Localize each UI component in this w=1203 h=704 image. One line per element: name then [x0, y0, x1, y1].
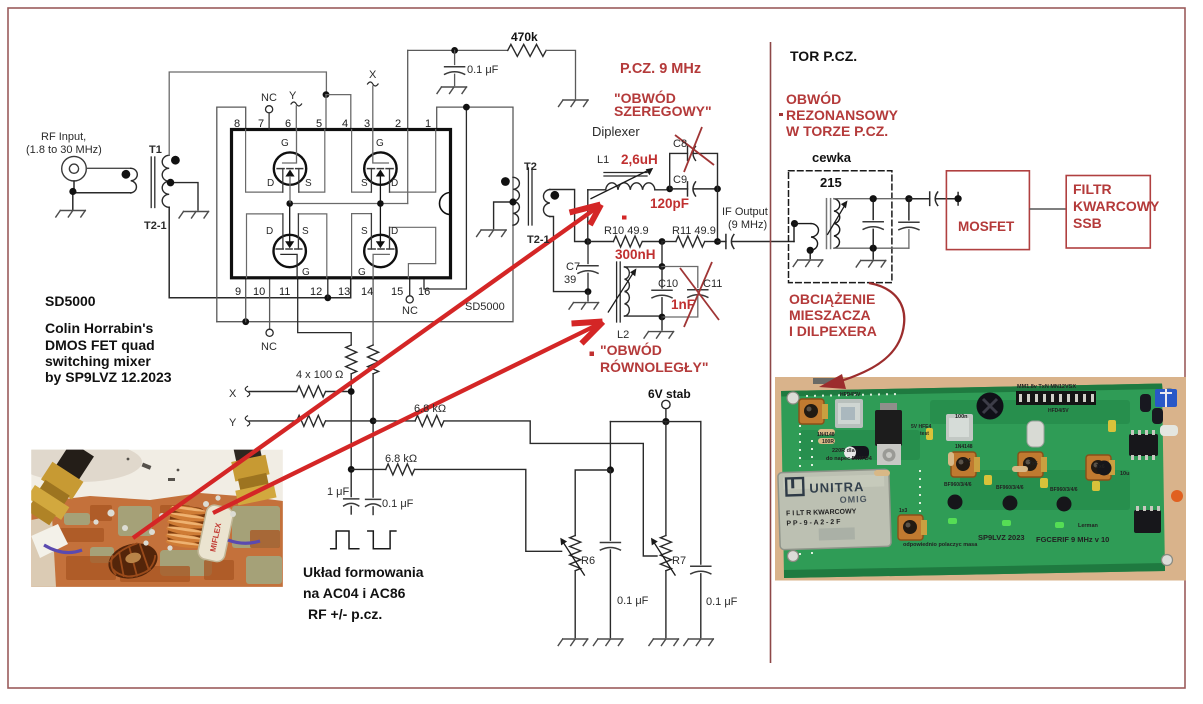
capacitor 0.1uF at R6: [609, 470, 611, 540]
interior bus BL left: [247, 214, 283, 278]
white via dot rows: [800, 394, 920, 560]
wire coil secondary top rail: [834, 198, 909, 200]
green LEDs: [948, 518, 1064, 528]
IC notch: [440, 193, 451, 215]
RF input coax connector J1: [62, 156, 87, 181]
svg-text:C9: C9: [673, 174, 687, 186]
node dot C9 right: [714, 186, 721, 193]
100 ohm resistor R2 vertical: [368, 345, 379, 374]
svg-text:4: 4: [342, 118, 348, 130]
svg-text:100R: 100R: [822, 439, 834, 445]
svg-text:C10: C10: [658, 278, 678, 290]
svg-text:3: 3: [364, 118, 370, 130]
svg-text:do napec 5WiFD4: do napec 5WiFD4: [826, 456, 873, 462]
resistor R11 49.9: [662, 241, 676, 243]
svg-text:8: 8: [234, 118, 240, 130]
resistor 470k: [508, 44, 546, 56]
svg-text:16: 16: [418, 286, 430, 298]
node dot substrate right pair: [377, 200, 384, 207]
node dot pin16/top: [463, 104, 470, 111]
svg-text:cewka: cewka: [812, 150, 852, 165]
svg-text:6.8 kΩ: 6.8 kΩ: [414, 403, 446, 415]
svg-text:Tx6: Tx6: [1096, 464, 1105, 470]
node dot R10/R11: [659, 238, 666, 245]
trimmer resistor R7: [660, 536, 671, 571]
svg-text:HFD4/5V: HFD4/5V: [1048, 408, 1069, 414]
capacitor C8 branch (crossed out): [670, 146, 718, 189]
svg-text:OBCIĄŻENIE: OBCIĄŻENIE: [789, 291, 875, 307]
Y drive brace: [245, 416, 250, 426]
svg-text:D: D: [391, 178, 398, 189]
blue trimmer pot: [1155, 389, 1177, 407]
wire T2 secondary bottom to C7 rail: [550, 217, 588, 292]
red arrow A photo to series circuit: [133, 205, 601, 539]
svg-text:1N4148: 1N4148: [955, 444, 973, 450]
svg-text:X: X: [369, 69, 377, 81]
capacitor 0.1uF at R7: [700, 422, 702, 564]
T2 phase dot primary: [501, 177, 510, 186]
IC SD5000 package body: [232, 130, 451, 278]
svg-text:HFD4'5V: HFD4'5V: [840, 392, 861, 398]
black round transistors BF960: [948, 461, 1112, 512]
orange cap right edge: [1171, 490, 1183, 502]
substrate rail inside IC: [290, 203, 408, 205]
L1 trimmer arrow: [591, 168, 653, 199]
node dot diplexer input: [584, 238, 591, 245]
svg-text:0.1 μF: 0.1 μF: [706, 596, 738, 608]
L2 winding: [625, 267, 630, 316]
dark silkscreen texts: [817, 384, 1105, 514]
node dot above pin5: [323, 91, 330, 98]
gray component pointed by arrow: [813, 378, 835, 384]
wire pin11 to 100ohm resistor R1: [298, 278, 352, 345]
svg-text:R10 49.9: R10 49.9: [604, 225, 649, 237]
wire node to pin 5: [325, 95, 327, 130]
svg-text:odpowiednio polaczyc masa: odpowiednio polaczyc masa: [903, 542, 978, 548]
wire pin14 down to resistor R2: [372, 278, 374, 345]
wire pin16 loop up to top node: [424, 107, 466, 289]
shadow on paper top-left: [18, 442, 142, 482]
ground coil primary: [809, 250, 811, 258]
svg-text:6: 6: [285, 118, 291, 130]
pale board edge left: [31, 516, 56, 587]
svg-text:SD5000: SD5000: [465, 301, 505, 313]
T1 secondary winding: [162, 155, 169, 207]
svg-text:5: 5: [316, 118, 322, 130]
connection MOSFET to FILTR: [1029, 208, 1066, 210]
ground tank: [872, 248, 874, 259]
svg-text:NC: NC: [402, 305, 418, 317]
small yellow caps: [926, 420, 1116, 491]
svg-text:R6: R6: [581, 555, 595, 567]
wire T2 secondary top to diplexer: [550, 190, 588, 242]
svg-text:1: 1: [425, 118, 431, 130]
transformer T1 primary winding: [131, 168, 138, 193]
svg-text:9: 9: [235, 286, 241, 298]
node dot pin12 on rail: [324, 294, 331, 301]
wire NC pin7 stub: [268, 113, 270, 130]
wire pin9 stub: [245, 278, 247, 322]
svg-text:RF Input,: RF Input,: [41, 131, 86, 143]
svg-text:(1.8 to 30 MHz): (1.8 to 30 MHz): [26, 144, 102, 156]
X input squiggle top: [368, 82, 379, 86]
svg-text:0.1 μF: 0.1 μF: [467, 64, 499, 76]
node dot lower 6.8k left: [348, 466, 355, 473]
resistor 6.8k lower: [351, 464, 561, 551]
wire pin15 to NC: [409, 278, 411, 296]
wire X to pin3: [372, 86, 374, 130]
T1 secondary center tap: [169, 183, 198, 210]
capacitor C11 branch (crossed out): [662, 267, 698, 318]
Y input squiggle top: [291, 102, 302, 106]
wire node to pin 4: [326, 95, 351, 130]
svg-text:BF960/3/4/6: BF960/3/4/6: [996, 485, 1024, 491]
svg-text:G: G: [376, 138, 384, 149]
purple wire right: [228, 540, 260, 543]
transistor Q2 top-right: [364, 130, 396, 204]
node dot coil primary bottom: [807, 247, 814, 254]
interior bus BR right: [390, 227, 436, 277]
trimmer resistor R6: [570, 536, 581, 571]
svg-text:NC: NC: [261, 92, 277, 104]
svg-text:G: G: [281, 138, 289, 149]
wire T1 secondary bottom down to pin13 rail: [169, 207, 351, 297]
white plastic corner: [31, 524, 68, 558]
red box FILTR KWARCOWY SSB: [1066, 176, 1150, 249]
svg-text:SZEREGOWY": SZEREGOWY": [614, 103, 712, 119]
tank capacitor inside box: [872, 199, 874, 220]
svg-text:5V HFE4: 5V HFE4: [911, 424, 932, 430]
svg-text:0.1 μF: 0.1 μF: [617, 595, 649, 607]
capacitor C9: [670, 182, 718, 196]
solder blobs: [93, 495, 236, 550]
node dot L2 top: [659, 263, 666, 270]
wire R6 bottom to ground: [574, 571, 576, 638]
svg-text:UNITRA: UNITRA: [809, 479, 865, 496]
T2 core: [528, 168, 532, 225]
L2 bottom wire: [625, 315, 663, 317]
node dot 6V: [662, 418, 669, 425]
wire left outer loop pin8: [217, 107, 246, 322]
series capacitor IF out: [718, 235, 795, 249]
svg-text:1 μF: 1 μF: [327, 486, 350, 498]
svg-text:FGCERIF 9 MHz v 10: FGCERIF 9 MHz v 10: [1036, 535, 1109, 544]
capacitor C10 1nF: [661, 267, 663, 289]
svg-text:Y: Y: [289, 90, 297, 102]
NC circle pin15: [406, 296, 413, 303]
svg-text:Lerman: Lerman: [1078, 523, 1099, 529]
node dot coil in: [791, 220, 798, 227]
darker green regions: [800, 400, 1130, 510]
red arrow B photo to parallel circuit: [213, 322, 603, 514]
svg-text:switching mixer: switching mixer: [45, 353, 151, 369]
darker copper traces: [58, 505, 280, 582]
svg-text:T2: T2: [524, 161, 537, 173]
dark red curvy arrow to PCB photo: [819, 283, 904, 389]
svg-text:4 x 100 Ω: 4 x 100 Ω: [296, 369, 343, 381]
svg-text:OMIG: OMIG: [840, 494, 868, 505]
svg-text:1N4148: 1N4148: [817, 432, 835, 438]
resistor R10 49.9: [588, 241, 614, 243]
wire 470k to ground drop: [546, 50, 575, 98]
node dot pin9 on bottom rail: [242, 318, 249, 325]
wire bias node top rail: [408, 49, 508, 51]
svg-text:G: G: [302, 267, 310, 278]
L2 top wire: [625, 266, 663, 268]
MIFLEX capacitor: [197, 504, 235, 563]
svg-text:P.CZ. 9 MHz: P.CZ. 9 MHz: [620, 61, 701, 77]
6V stab terminal: [662, 400, 670, 408]
node dot R11 right: [714, 238, 721, 245]
svg-text:R7: R7: [672, 555, 686, 567]
svg-text:T1: T1: [149, 144, 162, 156]
wire Y to pin6: [295, 106, 297, 130]
wire R2 down through Y node to 0.1uF cap: [372, 374, 374, 497]
silver relay 2: [946, 414, 973, 441]
svg-text:L2: L2: [617, 329, 629, 341]
UNITRA metal can: [778, 469, 891, 549]
svg-text:220R dla r: 220R dla r: [832, 448, 859, 454]
svg-text:D: D: [267, 178, 274, 189]
copper air coil: [164, 503, 208, 549]
node dot bias/cap: [451, 47, 458, 54]
svg-text:C7: C7: [566, 261, 580, 273]
svg-text:300nH: 300nH: [615, 247, 656, 262]
second tank capacitor outside box: [905, 195, 912, 202]
svg-text:RÓWNOLEGŁY": RÓWNOLEGŁY": [600, 358, 709, 375]
svg-text:IF Output: IF Output: [722, 206, 768, 218]
red square mark near 120pF: [622, 216, 627, 220]
electrolytic cap horizontal: [847, 446, 869, 459]
svg-text:Układ formowania: Układ formowania: [303, 564, 424, 580]
svg-text:SSB: SSB: [1073, 215, 1102, 231]
node dot connector/return: [69, 188, 76, 195]
svg-text:Diplexer: Diplexer: [592, 124, 640, 139]
interior bus TR right: [390, 130, 436, 193]
wire 6V rail: [610, 421, 700, 423]
svg-text:T2-1: T2-1: [144, 220, 167, 232]
svg-text:BF960/3/4/6: BF960/3/4/6: [944, 482, 972, 488]
ground T1 center tap: [179, 212, 209, 219]
svg-text:10u: 10u: [1120, 471, 1129, 477]
svg-text:S: S: [361, 226, 368, 237]
svg-text:15: 15: [391, 286, 403, 298]
transistor Q3 bottom-left: [274, 204, 306, 278]
red square mark near OBWOD ROWNOLEGLY: [590, 352, 595, 357]
wire R1 down through X node to 1uF cap: [350, 374, 352, 497]
svg-text:Colin Horrabin's: Colin Horrabin's: [45, 320, 154, 336]
tan resistors: [818, 429, 1028, 476]
capacitor C7 39p: [587, 242, 589, 264]
svg-text:MOSFET: MOSFET: [958, 219, 1015, 234]
transformer T2 primary winding on loop rail: [513, 177, 519, 225]
svg-text:S: S: [361, 178, 368, 189]
inductor L1 variable: [587, 190, 589, 242]
svg-text:G: G: [358, 267, 366, 278]
svg-text:"OBWÓD: "OBWÓD: [600, 341, 662, 358]
node dot MOSFET in: [955, 195, 962, 202]
svg-text:MIESZACZA: MIESZACZA: [789, 307, 871, 323]
wire connector body down: [73, 181, 75, 193]
big electrolytic top view: [977, 393, 1004, 420]
node dot substrate left pair: [286, 200, 293, 207]
series capacitor to MOSFET: [909, 192, 958, 205]
corner screws: [787, 389, 1175, 566]
Y drive wire and resistor: [249, 415, 373, 426]
interior bus TL right: [299, 130, 325, 193]
wire pin12 stub: [327, 278, 329, 298]
svg-text:6.8 kΩ: 6.8 kΩ: [385, 453, 417, 465]
svg-text:SD5000: SD5000: [45, 293, 96, 309]
ground under RF connector: [56, 211, 86, 218]
wire 6V to R7 top: [665, 422, 667, 536]
svg-text:S: S: [305, 178, 312, 189]
svg-text:11: 11: [279, 286, 290, 298]
svg-text:D: D: [266, 226, 273, 237]
node dots tank cap: [870, 195, 877, 202]
node dot L2 bottom: [659, 314, 666, 321]
interior bus BR left: [352, 214, 372, 278]
T2 primary center tap to ground: [494, 202, 513, 229]
ground bias cap: [437, 87, 467, 94]
svg-text:FILTR: FILTR: [1073, 181, 1112, 197]
DIP-8 IC 2: [1134, 510, 1161, 533]
svg-text:6V stab: 6V stab: [648, 387, 691, 401]
svg-text:Tx4: Tx4: [962, 458, 971, 464]
right photo: green PCB FGCERIF: [775, 377, 1186, 581]
square wave symbol negative: [368, 531, 396, 549]
copper board: [31, 493, 283, 587]
pale green trace patches: [64, 506, 282, 584]
svg-text:7: 7: [258, 118, 264, 130]
yellow silkscreen texts: [826, 414, 1129, 548]
wire R7 bottom to ground: [665, 571, 667, 638]
interior bus TL left: [246, 130, 283, 193]
wire RF hot to T1 primary: [86, 167, 130, 169]
svg-text:REZONANSOWY: REZONANSOWY: [786, 107, 899, 123]
svg-text:120pF: 120pF: [650, 196, 689, 211]
svg-text:MM1.8v TxN MN12VSX: MM1.8v TxN MN12VSX: [1017, 384, 1076, 390]
wire C9 node down to R11: [717, 189, 719, 242]
left photo: prototype mixer on copper PCB: [18, 433, 283, 587]
wire L1 out to C9 node: [655, 189, 670, 191]
T2 phase dot secondary: [550, 191, 559, 200]
svg-text:215: 215: [820, 175, 842, 190]
X drive brace: [245, 387, 250, 397]
100 ohm resistor R1 vertical: [346, 345, 357, 374]
interior bus BL right: [298, 214, 326, 278]
T1 phase dot secondary: [171, 156, 180, 165]
wire coil secondary bottom rail: [834, 247, 909, 249]
red X cross over C8: [675, 127, 714, 172]
dashed box resonant circuit: [789, 171, 892, 283]
svg-text:12: 12: [310, 286, 322, 298]
red tick before REZONANSOWY: [779, 113, 783, 116]
orange trimmer capacitors: [799, 399, 1115, 540]
wire RF return bottom: [73, 193, 131, 210]
svg-text:I DILPEXERA: I DILPEXERA: [789, 323, 877, 339]
toroid inductor: [104, 538, 161, 584]
TO-220 transistor: [875, 403, 902, 465]
svg-text:Y: Y: [229, 417, 237, 429]
coil core: [827, 199, 831, 249]
T1 phase dot primary: [122, 170, 131, 179]
coil primary winding: [795, 223, 812, 225]
svg-text:test: test: [920, 431, 929, 437]
pin header: [1016, 391, 1096, 405]
red box MOSFET: [946, 171, 1029, 250]
ground C7: [587, 292, 589, 301]
wire bias vertical into pin2: [407, 50, 409, 129]
svg-text:SP9LVZ 2023: SP9LVZ 2023: [978, 533, 1025, 542]
capacitor 0.1uF bias: [454, 50, 456, 64]
svg-text:X: X: [229, 388, 237, 400]
L1 core bars: [604, 173, 647, 177]
svg-text:1x3: 1x3: [899, 508, 908, 514]
node dot C9 left: [666, 186, 673, 193]
svg-text:100n: 100n: [955, 414, 968, 420]
node dot C7 bottom: [585, 288, 592, 295]
svg-text:470k: 470k: [511, 30, 538, 44]
svg-text:DMOS FET quad: DMOS FET quad: [45, 337, 155, 353]
svg-text:NC: NC: [261, 341, 277, 353]
green board: [781, 384, 1165, 579]
red separator line TOR P.CZ.: [770, 42, 772, 663]
black cylinder caps top right: [1140, 394, 1151, 412]
crystal 9MHz: [1027, 421, 1044, 447]
svg-text:2,6uH: 2,6uH: [621, 152, 658, 167]
svg-text:(9 MHz): (9 MHz): [728, 219, 767, 231]
square wave symbol positive: [331, 531, 359, 549]
svg-text:Tx5: Tx5: [1029, 461, 1038, 467]
transistor Q1 top-left: [274, 130, 306, 204]
svg-text:RF +/- p.cz.: RF +/- p.cz.: [308, 606, 382, 622]
svg-text:BF960/3/4/6: BF960/3/4/6: [1050, 487, 1078, 493]
svg-text:na AC04 i AC86: na AC04 i AC86: [303, 585, 406, 601]
transistor Q4 bottom-right: [364, 204, 396, 278]
gold SMA connector right: [225, 433, 277, 506]
wire T1 secondary top up-over to pins 5/4: [169, 72, 326, 155]
svg-text:S: S: [302, 226, 309, 237]
svg-text:C8: C8: [673, 138, 687, 150]
svg-text:by SP9LVZ 12.2023: by SP9LVZ 12.2023: [45, 369, 172, 385]
ground T2 tap: [477, 230, 507, 237]
X drive wire and resistor: [249, 386, 351, 397]
svg-text:D: D: [391, 226, 398, 237]
svg-text:L1: L1: [597, 154, 609, 166]
node dot Y: [370, 418, 377, 425]
NC circle pin7: [266, 106, 273, 113]
svg-text:14: 14: [361, 286, 373, 298]
coil secondary winding: [834, 199, 840, 249]
svg-text:W TORZE P.CZ.: W TORZE P.CZ.: [786, 123, 888, 139]
svg-text:OBWÓD: OBWÓD: [786, 90, 841, 107]
capacitor 1uF: [344, 499, 359, 506]
white cylinder: [1160, 425, 1178, 436]
svg-text:TOR P.CZ.: TOR P.CZ.: [790, 48, 857, 64]
ground L2/C10: [661, 317, 663, 330]
wire bottom rail pins 9/1 loop: [217, 107, 513, 322]
svg-text:KWARCOWY: KWARCOWY: [1073, 198, 1160, 214]
gold SMA connector left: [21, 438, 100, 529]
ground right of 470k: [559, 100, 589, 107]
red X cross over C11: [680, 262, 719, 327]
L2 trimmer arrow: [608, 268, 636, 312]
wire node to R6 top: [575, 470, 610, 536]
svg-text:13: 13: [338, 286, 350, 298]
DIP-8 IC 1: [1129, 434, 1158, 456]
node dot X: [348, 388, 355, 395]
